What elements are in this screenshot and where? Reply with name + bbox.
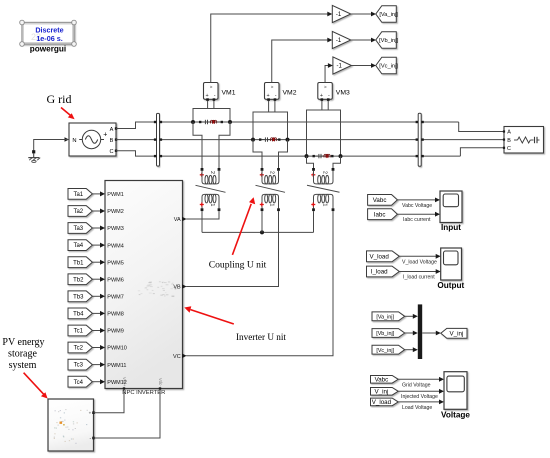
from tag Ta2 <box>68 206 92 217</box>
svg-text:-: - <box>275 93 277 99</box>
svg-text:VB: VB <box>173 285 181 291</box>
NPC input port PWM12 <box>100 379 105 384</box>
NPC input port PWM9 <box>100 328 105 333</box>
svg-text:V_load Voltage: V_load Voltage <box>402 259 437 265</box>
svg-text:+: + <box>103 131 107 138</box>
svg-text:1: 1 <box>209 204 215 207</box>
wire VM3 loop <box>307 110 341 156</box>
phase C wire from source <box>116 151 460 156</box>
wire Tc4 to PWM12 <box>92 381 100 383</box>
wire VM2 loop <box>253 112 288 140</box>
transformer T1 <box>201 168 204 171</box>
wire Tc3 to PWM11 <box>92 364 100 366</box>
series RLC branch 1 <box>199 121 201 123</box>
scope Input <box>440 191 462 223</box>
svg-text:+: + <box>206 93 209 99</box>
NPC input port PWM11 <box>100 362 105 367</box>
svg-text:PWM6: PWM6 <box>107 277 124 283</box>
svg-text:[Va_inj]: [Va_inj] <box>376 314 394 320</box>
svg-text:Load Voltage: Load Voltage <box>402 405 432 411</box>
wire VM1 loop <box>193 109 230 123</box>
wire Ta3 to PWM3 <box>92 227 100 229</box>
voltage measurement VM2 <box>265 83 280 100</box>
three-phase load block <box>504 127 544 154</box>
svg-text:[Vc_inj]: [Vc_inj] <box>376 348 394 354</box>
svg-text:Tb1: Tb1 <box>73 260 84 266</box>
svg-text:VA: VA <box>174 217 181 223</box>
series RLC branch 3 <box>313 155 315 157</box>
NPC input port PWM6 <box>100 277 105 282</box>
svg-text:1e-06 s.: 1e-06 s. <box>36 34 62 43</box>
red arrow to grid source <box>61 108 71 117</box>
svg-text:VM1: VM1 <box>222 90 236 97</box>
wire VM1 to gain1 <box>211 14 328 83</box>
svg-text:PWM3: PWM3 <box>107 226 124 232</box>
wire Tb4 to PWM8 <box>92 312 100 314</box>
svg-text:NPC INVERTER: NPC INVERTER <box>122 390 165 396</box>
wire Vabc to Voltage scope <box>398 378 439 380</box>
svg-text:N: N <box>72 138 76 144</box>
svg-text:1: 1 <box>322 204 328 207</box>
svg-text:+: + <box>267 93 270 99</box>
wire Vb_inj to mux <box>405 332 414 334</box>
phase B wire <box>116 139 504 141</box>
svg-text:Tc1: Tc1 <box>74 329 84 335</box>
svg-text:Ta3: Ta3 <box>73 226 83 232</box>
svg-text:[Vb_inj]: [Vb_inj] <box>376 331 394 337</box>
from tag Iabc <box>368 209 398 220</box>
svg-text:Ta4: Ta4 <box>73 243 83 249</box>
svg-text:PWM8: PWM8 <box>107 312 124 318</box>
from tag V_load (output) <box>367 251 400 262</box>
svg-text:Vabc Voltage: Vabc Voltage <box>402 203 432 209</box>
from tag Vabc (input) <box>368 195 398 206</box>
voltage measurement VM1 <box>204 83 219 100</box>
from tag Tb1 <box>68 257 92 268</box>
svg-text:Input: Input <box>441 223 461 232</box>
NPC inverter block <box>105 181 183 389</box>
svg-text:PV energy: PV energy <box>2 337 44 348</box>
from tag Tc1 <box>68 325 92 336</box>
mux <box>418 304 422 359</box>
svg-text:PWM7: PWM7 <box>107 295 124 301</box>
phase A wire jog to load <box>459 122 504 132</box>
svg-text:storage: storage <box>8 349 37 360</box>
gain G2 (-1) <box>332 31 351 48</box>
from tag Va_inj <box>372 312 405 321</box>
from tag Tc2 <box>68 342 92 353</box>
wire V_inj to Voltage scope <box>398 390 439 392</box>
wire VC <box>186 211 333 356</box>
from tag I_load <box>367 266 400 277</box>
goto tag Vb_inj <box>376 32 397 49</box>
svg-text:[Va_inj]: [Va_inj] <box>379 12 398 18</box>
svg-text:C: C <box>109 149 113 155</box>
wire PV+ to NPC <box>94 390 125 413</box>
svg-text:V_load: V_load <box>372 399 392 406</box>
svg-text:Inverter U nit: Inverter U nit <box>236 332 286 342</box>
svg-text:PWM11: PWM11 <box>107 363 126 369</box>
svg-text:+: + <box>89 410 92 415</box>
svg-text:[Vc_inj]: [Vc_inj] <box>379 64 398 70</box>
svg-text:Iabc: Iabc <box>374 211 386 218</box>
goto tag Vc_inj <box>376 57 397 74</box>
svg-text:powergui: powergui <box>30 45 66 54</box>
wire I_load to Output scope <box>399 271 436 273</box>
svg-text:-: - <box>214 93 216 99</box>
wire VB <box>186 211 278 286</box>
from tag Ta4 <box>68 240 92 251</box>
svg-text:-: - <box>328 93 330 99</box>
wire staple left unit 2 <box>253 140 262 168</box>
svg-text:Tb4: Tb4 <box>73 312 84 318</box>
svg-text:PWM9: PWM9 <box>107 329 124 335</box>
svg-text:>: > <box>210 85 213 90</box>
svg-text:G rid: G rid <box>47 92 72 106</box>
NPC input port PWM4 <box>100 243 105 248</box>
svg-text:>: > <box>271 85 274 90</box>
svg-text:Vdc-: Vdc- <box>158 378 163 387</box>
svg-text:Output: Output <box>437 281 464 290</box>
NPC input port PWM7 <box>100 294 105 299</box>
wire Ta1 to PWM1 <box>92 193 100 195</box>
wire VA <box>186 211 219 219</box>
svg-text:2: 2 <box>209 171 215 174</box>
ground port square <box>32 150 35 153</box>
NPC input port PWM2 <box>100 209 105 214</box>
svg-text:Iabc current: Iabc current <box>403 217 431 223</box>
svg-text:B: B <box>110 138 114 144</box>
from tag Vb_inj <box>372 329 405 338</box>
wire gain2 to goto <box>351 39 372 41</box>
svg-text:PWM2: PWM2 <box>107 209 124 215</box>
wire Vabc to Input scope <box>397 199 435 201</box>
gain G1 (-1) <box>332 5 351 22</box>
svg-text:2: 2 <box>322 171 328 174</box>
svg-text:V_inj: V_inj <box>450 330 464 337</box>
svg-text:V_load: V_load <box>370 253 390 260</box>
gain G3 (-1) <box>333 57 352 74</box>
wire staple left unit 1 <box>193 122 202 168</box>
from tag Ta1 <box>68 189 92 200</box>
bus bar B1 <box>157 113 160 166</box>
svg-text:-1: -1 <box>336 12 342 18</box>
wire PV- to NPC <box>94 390 161 438</box>
svg-text:PWM1: PWM1 <box>107 192 124 198</box>
svg-text:VC: VC <box>173 354 181 360</box>
svg-text:2: 2 <box>269 171 275 174</box>
svg-text:Tc2: Tc2 <box>74 346 84 352</box>
from tag Vabc (voltage) <box>371 376 399 384</box>
svg-text:Tb2: Tb2 <box>73 277 84 283</box>
svg-text:VM3: VM3 <box>336 90 350 97</box>
wire Tc2 to PWM10 <box>92 347 100 349</box>
svg-text:+: + <box>320 93 323 99</box>
AC voltage source block Grid <box>69 123 116 156</box>
wire common neutral <box>202 231 314 233</box>
wire Vc_inj to mux <box>405 349 414 351</box>
svg-text:[Vb_inj]: [Vb_inj] <box>379 38 398 44</box>
wire gain1 to goto <box>351 13 372 15</box>
svg-text:Ta1: Ta1 <box>73 192 83 198</box>
series RLC branch 2 <box>259 138 261 140</box>
wire T3 left to common <box>313 211 315 232</box>
wire Tb3 to PWM7 <box>92 295 100 297</box>
powergui block <box>22 23 74 45</box>
junction dots unit 3 <box>305 154 309 158</box>
svg-text:PWM5: PWM5 <box>107 260 124 266</box>
wire gain3 to goto <box>351 65 371 67</box>
transformer T2 <box>261 168 264 171</box>
svg-text:Ta2: Ta2 <box>73 209 83 215</box>
wire Tb1 to PWM5 <box>92 261 100 263</box>
svg-text:Injected Voltage: Injected Voltage <box>401 394 438 400</box>
wire Va_inj to mux <box>405 315 414 317</box>
wire staple right unit 2 <box>279 140 288 168</box>
from tag Ta3 <box>68 223 92 234</box>
ground symbol <box>33 153 35 157</box>
svg-text:C: C <box>507 146 511 152</box>
svg-text:Tb3: Tb3 <box>73 294 84 300</box>
svg-text:Grid Voltage: Grid Voltage <box>402 383 431 389</box>
from tag Tb2 <box>68 274 92 285</box>
wire T1 left to common <box>201 211 203 232</box>
from tag V_load (voltage) <box>371 398 399 406</box>
from tag Tc3 <box>68 359 92 370</box>
AC source sine circle <box>82 130 100 148</box>
wire staple left unit 3 <box>307 156 314 168</box>
PV energy storage system block <box>48 399 94 451</box>
svg-text:Vabc: Vabc <box>375 376 389 383</box>
svg-text:I_load current: I_load current <box>403 274 435 280</box>
NPC input port PWM5 <box>100 260 105 265</box>
wire Tc1 to PWM9 <box>92 330 100 332</box>
NPC watermark <box>147 289 149 290</box>
wire staple right unit 3 <box>333 156 341 168</box>
junction dots unit 2 <box>251 138 255 142</box>
svg-text:Voltage: Voltage <box>441 410 470 419</box>
svg-text:Vdc+: Vdc+ <box>122 377 127 387</box>
svg-text:PWM4: PWM4 <box>107 243 124 249</box>
svg-text:system: system <box>9 360 37 371</box>
svg-text:1: 1 <box>269 204 275 207</box>
AC source port squares <box>115 127 117 129</box>
goto tag Va_inj <box>376 6 397 23</box>
wire V_load to Output scope <box>399 255 436 257</box>
AC source input port N arrowhead <box>65 137 70 141</box>
wire Iabc to Input scope <box>397 213 435 215</box>
svg-text:>: > <box>324 85 327 90</box>
wire Tb2 to PWM6 <box>92 278 100 280</box>
red arrow to PV block <box>24 373 45 395</box>
svg-text:B: B <box>507 138 511 144</box>
svg-text:Tc3: Tc3 <box>74 363 84 369</box>
wire VM2 to gain2 <box>272 40 328 83</box>
transformer T3 <box>312 168 315 171</box>
goto tag V_inj <box>441 328 467 338</box>
wire staple right unit 1 <box>219 122 230 168</box>
svg-text:Coupling U nit: Coupling U nit <box>209 259 267 270</box>
scope Voltage <box>444 372 467 410</box>
svg-text:V_inj: V_inj <box>375 388 389 395</box>
junction dot common T2 <box>260 230 264 234</box>
NPC input port PWM8 <box>100 311 105 316</box>
wire T2 left to common <box>261 211 263 232</box>
junction dots unit 1 <box>191 120 195 124</box>
phase C wire jog to load <box>460 148 504 156</box>
svg-text:VM2: VM2 <box>283 90 297 97</box>
scope Output <box>441 248 462 280</box>
bus bar B2 <box>418 113 421 166</box>
from tag Tb3 <box>68 291 92 302</box>
wire Ta2 to PWM2 <box>92 210 100 212</box>
svg-text:I_load: I_load <box>371 269 388 276</box>
voltage measurement VM3 <box>318 83 333 100</box>
wire Ta4 to PWM4 <box>92 244 100 246</box>
NPC input port PWM3 <box>100 226 105 231</box>
svg-text:-1: -1 <box>336 38 342 44</box>
from tag Tc4 <box>68 376 92 387</box>
from tag Vc_inj <box>372 345 405 354</box>
powergui selection handles <box>20 20 25 25</box>
NPC input port PWM1 <box>100 191 105 196</box>
red arrow coupling <box>232 204 251 255</box>
red arrow inverter <box>191 310 234 324</box>
from tag Tb4 <box>68 308 92 319</box>
from tag V_inj <box>371 388 399 396</box>
wire VM3 to gain3 <box>325 66 328 83</box>
svg-text:PWM10: PWM10 <box>107 346 127 352</box>
NPC input port PWM10 <box>100 345 105 350</box>
wire mux to V_inj <box>422 332 436 334</box>
svg-text:-1: -1 <box>337 64 343 70</box>
svg-text:Vabc: Vabc <box>373 197 387 204</box>
svg-text:Tc4: Tc4 <box>74 380 84 386</box>
load RL icon <box>514 139 518 141</box>
svg-text:A: A <box>507 130 511 136</box>
phase A wire from source <box>116 122 459 129</box>
wire V_load to Voltage scope <box>398 401 439 403</box>
wire N to ground <box>34 140 69 151</box>
svg-text:A: A <box>110 127 114 133</box>
